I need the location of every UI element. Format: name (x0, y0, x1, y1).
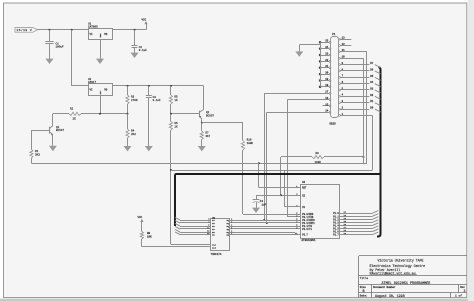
svg-text:Size: Size (360, 286, 367, 289)
svg-text:2K2: 2K2 (131, 133, 136, 136)
svg-text:16: 16 (325, 97, 329, 100)
svg-text:R2: R2 (70, 107, 74, 110)
svg-text:24: 24 (325, 46, 329, 49)
svg-text:15: 15 (325, 103, 329, 106)
svg-text:21: 21 (325, 65, 329, 68)
svg-text:GND: GND (99, 33, 102, 38)
svg-text:LM317: LM317 (88, 81, 96, 84)
svg-text:CLR: CLR (212, 246, 217, 249)
svg-text:D4: D4 (370, 81, 374, 84)
svg-text:Date:: Date: (360, 295, 368, 298)
svg-text:23: 23 (325, 52, 329, 55)
svg-text:ADJ: ADJ (99, 90, 102, 95)
svg-text:VI: VI (90, 89, 94, 92)
svg-text:0.1uF: 0.1uF (139, 49, 147, 52)
svg-text:P3.5/T1: P3.5/T1 (302, 228, 312, 231)
svg-text:3: 3 (464, 289, 466, 293)
svg-text:RST: RST (302, 187, 307, 190)
svg-text:D1: D1 (370, 100, 374, 103)
svg-text:Document Number: Document Number (373, 286, 396, 289)
svg-text:VCC: VCC (138, 216, 143, 219)
svg-text:100K: 100K (247, 142, 254, 145)
svg-text:2K: 2K (73, 117, 77, 120)
svg-text:1uF: 1uF (262, 203, 267, 206)
svg-text:VCC: VCC (142, 18, 147, 21)
svg-text:D7: D7 (370, 62, 374, 65)
svg-text:1K: 1K (174, 99, 178, 102)
svg-text:25: 25 (325, 40, 329, 43)
svg-text:D0: D0 (370, 107, 374, 110)
svg-text:BC557: BC557 (206, 114, 214, 117)
svg-text:18: 18 (325, 84, 329, 87)
svg-text:D6: D6 (370, 68, 374, 71)
svg-text:Victoria University TAFE: Victoria University TAFE (378, 258, 424, 262)
svg-text:D3: D3 (370, 87, 374, 90)
svg-text:270R: 270R (131, 99, 138, 102)
svg-text:1K: 1K (174, 126, 178, 129)
svg-text:16/18 V: 16/18 V (16, 28, 32, 32)
svg-text:19: 19 (325, 78, 329, 81)
svg-text:74HC174: 74HC174 (211, 253, 222, 256)
svg-text:0.1uF: 0.1uF (153, 99, 161, 102)
svg-text:VO: VO (104, 33, 108, 36)
svg-text:100uF: 100uF (56, 46, 64, 49)
svg-text:U4: U4 (302, 181, 306, 184)
svg-text:Title: Title (360, 276, 369, 280)
svg-text:PAverill@emct.vct.edu.au: PAverill@emct.vct.edu.au (370, 272, 416, 276)
svg-text:22: 22 (325, 59, 329, 62)
svg-text:17: 17 (325, 91, 329, 94)
svg-text:August 30, 1998: August 30, 1998 (375, 294, 405, 298)
svg-text:D2: D2 (370, 94, 374, 97)
svg-text:DB25: DB25 (330, 123, 337, 126)
svg-text:3K3: 3K3 (35, 153, 40, 156)
svg-text:VI: VI (90, 33, 94, 36)
svg-text:R9: R9 (316, 152, 320, 155)
svg-text:AT89C2051: AT89C2051 (302, 239, 316, 242)
svg-text:100K: 100K (315, 161, 322, 164)
svg-text:4K7: 4K7 (205, 135, 210, 138)
svg-text:10K: 10K (147, 236, 152, 239)
svg-text:VO: VO (104, 89, 108, 92)
svg-text:1 of: 1 of (455, 294, 462, 298)
svg-text:LM7805: LM7805 (88, 26, 98, 29)
svg-text:20: 20 (325, 72, 329, 75)
svg-text:P3.7: P3.7 (302, 234, 308, 237)
svg-text:BC547: BC547 (56, 129, 64, 132)
svg-text:D5: D5 (370, 75, 374, 78)
svg-text:14: 14 (325, 110, 329, 113)
svg-text:P1.7: P1.7 (333, 234, 339, 237)
svg-text:P1: P1 (332, 33, 336, 36)
